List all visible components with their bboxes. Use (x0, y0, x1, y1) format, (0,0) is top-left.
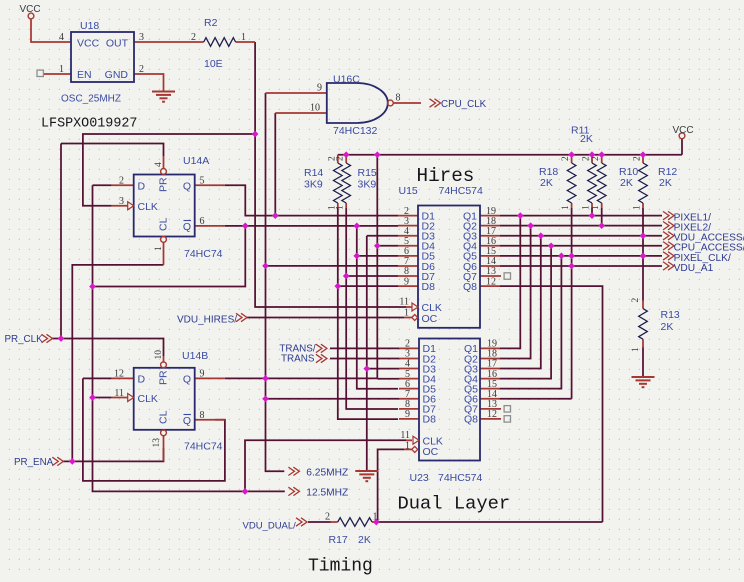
svg-text:2: 2 (139, 64, 144, 75)
resistor R11 body (588, 163, 597, 203)
svg-text:CL: CL (158, 217, 170, 231)
junction rail R18 (568, 151, 575, 158)
wire U14A PR rail from PR_CLK net (61, 144, 164, 157)
svg-text:1: 1 (591, 205, 601, 210)
svg-text:10: 10 (154, 350, 164, 360)
wire TRANS/ row to U23 D1 (330, 347, 399, 349)
pin U14A CL stem (163, 242, 165, 265)
svg-text:1: 1 (59, 64, 64, 75)
svg-text:1: 1 (582, 205, 592, 210)
junction V3 at D2 (353, 223, 360, 230)
svg-text:3: 3 (139, 32, 144, 43)
junction PR_ENA chevron (69, 458, 76, 465)
pin resistor top lead x=346.2 (345, 155, 347, 163)
svg-text:CLK: CLK (138, 201, 158, 213)
pin U23 Q2 (480, 357, 500, 359)
wire U23 Q5 riser (500, 256, 561, 389)
junction V5 at U15 D4 (374, 242, 381, 249)
pin U23 Q6 (480, 398, 500, 400)
wire PR_CLK row (52, 339, 164, 357)
svg-text:U14A: U14A (183, 155, 209, 167)
junction R15 at U15 D7 (343, 273, 350, 280)
net label arrow CPU_CLK (430, 99, 441, 107)
wire PR_CLK vertical to PR_CLK row (60, 144, 62, 339)
junction R18 column at VDU_A1 (568, 263, 575, 270)
svg-text:CPU_CLK: CPU_CLK (441, 99, 487, 110)
svg-text:Dual Layer: Dual Layer (398, 493, 511, 515)
net label arrow 12.5MHZ (288, 487, 299, 495)
svg-text:9: 9 (200, 369, 205, 380)
pin resistor bottom lead x=337.8 (337, 203, 339, 208)
pin U23 Q4 (480, 378, 500, 380)
wire VCC stem right (681, 139, 683, 155)
wire U14B Q row (225, 377, 378, 379)
pin U23 Q5 (480, 388, 500, 390)
svg-text:OSC_25MHZ: OSC_25MHZ (61, 94, 121, 105)
svg-text:LFSPXO019927: LFSPXO019927 (41, 117, 137, 132)
svg-text:R15: R15 (358, 167, 377, 179)
svg-text:Q8: Q8 (463, 281, 477, 293)
wire U14A Q to U15 D1 row (225, 185, 398, 215)
svg-text:2: 2 (336, 156, 346, 161)
svg-text:D8: D8 (422, 281, 436, 293)
nand U16C output bubble (388, 100, 394, 106)
svg-text:PR: PR (158, 177, 170, 192)
svg-text:4: 4 (59, 32, 64, 43)
svg-text:Q: Q (183, 415, 191, 427)
svg-text:PR_ENA: PR_ENA (14, 457, 54, 468)
svg-text:2K: 2K (659, 177, 672, 189)
junction rail V5 (374, 151, 381, 158)
svg-text:12: 12 (114, 369, 124, 380)
wire V5 vertical from VCC rail to U14B Q row (376, 155, 378, 379)
net label arrow TRANS/ (316, 344, 327, 352)
wire U23 CLK row from 12.5MHZ net (245, 440, 406, 491)
U15 CLK triangle (412, 303, 418, 311)
resistor R12 body (639, 163, 648, 203)
junction 6.25MHZ at U14B Q (262, 375, 269, 382)
junction rail R12 (640, 151, 647, 158)
svg-text:9: 9 (405, 409, 410, 420)
wire U14A D row (93, 184, 112, 186)
wire U15 Q5 row PIXEL_CLK/ (500, 255, 662, 257)
U14A CL bubble (161, 237, 167, 243)
wire R13 lower to ground (642, 348, 644, 378)
svg-text:Q: Q (183, 221, 191, 233)
register U15 body (418, 206, 480, 328)
svg-text:2K: 2K (540, 177, 553, 189)
wire U15 Q3 row VDU_ACCESS/ (500, 235, 662, 237)
pin U15 D8 (398, 285, 418, 287)
wire R14 column to U23 D8 (338, 208, 398, 419)
resistor R2 body (204, 38, 236, 47)
svg-text:U14B: U14B (182, 350, 208, 362)
wire U14A CL to PR_ENA net (72, 265, 163, 462)
junction Q1 riser at PIXEL1 (517, 212, 524, 219)
svg-text:U15: U15 (399, 185, 418, 197)
svg-text:1: 1 (154, 246, 164, 251)
wire U23 Q3 riser (500, 236, 541, 369)
pin U23 D2 (399, 357, 419, 359)
svg-text:74HC74: 74HC74 (184, 441, 223, 453)
junction R12 column at PIXEL_CLK (640, 253, 647, 260)
wire U15 D3 row (367, 235, 398, 237)
net label arrow CPU_ACCESS/ (663, 242, 674, 250)
pin resistor bottom lead x=643.0 (642, 203, 644, 208)
svg-text:1: 1 (404, 308, 409, 319)
pin U23 D1 (399, 347, 419, 349)
pin U23 CLK (406, 439, 412, 441)
svg-text:4: 4 (154, 162, 164, 167)
wire U16C pin9 vertical to 6.25MHZ stub (266, 93, 285, 471)
pin U15 D2 (398, 225, 418, 227)
pin U23 D4 (399, 378, 419, 380)
svg-text:EN: EN (77, 69, 92, 81)
svg-text:2: 2 (591, 156, 601, 161)
no-connect square U23 Q7 (504, 406, 510, 412)
svg-text:D8: D8 (423, 414, 437, 426)
pin U15 D1 (398, 215, 418, 217)
svg-text:OUT: OUT (106, 38, 129, 50)
pin U23 D8 (399, 418, 419, 420)
svg-text:2K: 2K (580, 133, 593, 145)
wire VDU_DUAL row (308, 521, 331, 523)
net label arrow PIXEL2/ (663, 221, 674, 229)
pin U23 D5 (399, 388, 419, 390)
svg-text:3K9: 3K9 (358, 179, 377, 191)
wire U15 D8 row (338, 285, 398, 287)
wire U15 Q1 row PIXEL1/ (500, 215, 662, 217)
wire R12-R13 column upper (642, 208, 644, 301)
svg-text:R13: R13 (661, 309, 680, 321)
junction rail R15 (343, 151, 350, 158)
wire VCC symbol stem to U18 pin 4 (31, 20, 71, 43)
svg-text:2: 2 (119, 176, 124, 187)
pin R2 lead right (236, 41, 256, 43)
pin resistor bottom lead x=571.6 (571, 203, 573, 208)
pin U23 Q3 (480, 368, 500, 370)
wire U23 Q2 riser (500, 226, 531, 359)
wire VDU_HIRES row to U15 OC (246, 317, 404, 319)
pin U23 D6 (399, 398, 419, 400)
resistor R15 body (342, 163, 351, 203)
ground symbol U23 OC (355, 471, 378, 481)
pin U14B Qbar (195, 419, 225, 421)
U23 OC bubble (412, 446, 418, 452)
svg-text:12: 12 (486, 276, 496, 287)
VCC power symbol right (679, 133, 685, 139)
junction PR_CLK chevron (58, 335, 65, 342)
svg-text:1: 1 (633, 205, 643, 210)
wire U15 D5 row (357, 255, 398, 257)
junction Q2 riser at PIXEL2 (527, 222, 534, 229)
junction R14 at U15 D8 (334, 283, 341, 290)
pin U15 Q6 (480, 265, 500, 267)
ground symbol R13 (632, 377, 655, 387)
svg-text:2: 2 (325, 512, 330, 523)
junction 6.25MHZ at U15 D6 (262, 263, 269, 270)
wire U14B CLK row (93, 397, 112, 399)
svg-text:VDU_DUAL/: VDU_DUAL/ (243, 521, 297, 532)
pin U23 Q8 stub (480, 418, 501, 420)
svg-text:10: 10 (310, 103, 320, 114)
svg-text:Timing: Timing (308, 557, 373, 577)
svg-text:3: 3 (119, 196, 124, 207)
junction 6.25MHZ at U23 D6 (262, 395, 269, 402)
net label arrow PIXEL1/ (663, 211, 674, 219)
U14B PR bubble (161, 362, 167, 368)
svg-text:10E: 10E (204, 58, 223, 70)
wire U23 Q1 riser (500, 216, 520, 349)
wire U23 Q4 riser (500, 246, 551, 379)
svg-text:VCC: VCC (673, 125, 694, 136)
pin resistor top lead x=643.0 (642, 155, 644, 163)
resistor R14 body (334, 163, 343, 203)
pin U23 D7 (399, 408, 419, 410)
pin U15 Q8 (480, 285, 500, 287)
net label arrow 6.25MHZ (288, 467, 299, 475)
pin U15 D7 (398, 275, 418, 277)
net label arrow VDU_A1 (663, 262, 674, 270)
pin R13 top lead (642, 301, 644, 309)
svg-text:74HC132: 74HC132 (333, 125, 378, 137)
svg-text:GND: GND (105, 69, 129, 81)
net label arrow VDU_DUAL/ (296, 518, 307, 526)
svg-text:U18: U18 (80, 20, 99, 32)
pin U15 Q4 (480, 245, 500, 247)
svg-text:OC: OC (423, 446, 439, 458)
svg-text:74HC74: 74HC74 (184, 248, 223, 260)
wire V4 vertical D3 to ground (366, 236, 368, 471)
no-connect square U15 Q7 (504, 273, 510, 279)
svg-text:1: 1 (561, 205, 571, 210)
svg-text:2K: 2K (620, 177, 633, 189)
U14B CLK triangle (128, 394, 134, 402)
pin U14A CLK (112, 205, 128, 207)
net label arrow PIXEL_CLK/ (663, 252, 674, 260)
svg-text:CLK: CLK (138, 393, 158, 405)
oscillator U18 body (71, 32, 134, 82)
pin U14B D (112, 377, 134, 379)
pin U14A Qbar (195, 225, 225, 227)
wire U15 Q4 row CPU_ACCESS/ (500, 245, 662, 247)
wire U23 D3 row (367, 368, 399, 370)
pin U23 D3 (399, 368, 419, 370)
pin resistor bottom lead x=346.2 (345, 203, 347, 208)
svg-text:U16C: U16C (333, 74, 360, 86)
pin U16C input 9 (266, 92, 327, 94)
junction V3 at U15 D5 (353, 253, 360, 260)
svg-text:2: 2 (191, 32, 196, 43)
no-connect square U23 Q8 (504, 416, 510, 422)
pin U15 D4 (398, 245, 418, 247)
wire U23 OC to VDU_DUAL net (378, 449, 404, 522)
svg-text:R14: R14 (304, 167, 323, 179)
pin U15 Q1 (480, 215, 500, 217)
svg-text:2: 2 (582, 156, 592, 161)
svg-text:U23: U23 (410, 472, 429, 484)
no-connect square U18 EN (37, 70, 43, 76)
svg-text:13: 13 (152, 438, 162, 448)
junction Q4 riser at CPU_ACCESS (548, 242, 555, 249)
pin U14B PR stem (163, 356, 165, 363)
svg-text:2K: 2K (358, 534, 371, 546)
wire 25MHZ branch row to U14A CLK (83, 134, 255, 206)
wire U15 D6 row (266, 265, 399, 267)
svg-text:Q: Q (183, 180, 191, 192)
wire U14A D feed vertical (12.5MHZ net) (93, 185, 285, 491)
pin U15 D5 (398, 255, 418, 257)
pin resistor top lead x=601.7 (601, 155, 603, 163)
svg-text:2K: 2K (661, 321, 674, 333)
wire R15 column to U23 D7 (346, 208, 398, 409)
junction R11 at PIXEL1 (589, 212, 596, 219)
pin R13 bottom lead (642, 339, 644, 347)
svg-text:9: 9 (404, 276, 409, 287)
svg-text:VDU_HIRES/: VDU_HIRES/ (177, 314, 237, 325)
svg-text:1: 1 (373, 512, 378, 523)
pin U16C output 8 (393, 102, 421, 104)
svg-text:VDU_A1: VDU_A1 (674, 263, 714, 274)
pin U15 OC (404, 317, 412, 319)
pin U15 D6 (398, 265, 418, 267)
svg-text:2: 2 (561, 156, 571, 161)
U15 OC bubble (412, 315, 418, 321)
wire R11 column lower (591, 208, 593, 216)
wire U23 D4 row (377, 378, 399, 380)
wire U23 Q6 row to R18 column (500, 398, 572, 400)
wire U15 D7 row (346, 275, 398, 277)
pin U23 Q7 stub (480, 408, 501, 410)
flip-flop U14A body (134, 175, 195, 237)
wire PR_ENA row (62, 448, 164, 461)
resistor R13 body (639, 309, 648, 340)
junction OC vertical at VDU_DUAL row (373, 519, 380, 526)
wire U15 Q8 row to VDU_DUAL net (500, 286, 603, 522)
wire U15 Q2 row PIXEL2/ (500, 225, 662, 227)
svg-text:1: 1 (336, 205, 346, 210)
pin U18 OUT to R2 (134, 41, 204, 43)
wire V3 vertical D2 to U23 D5 (357, 226, 398, 389)
resistor R18 body (567, 163, 576, 203)
pin U14B Q (195, 377, 225, 379)
svg-text:CL: CL (158, 410, 170, 424)
svg-text:VCC: VCC (20, 4, 41, 15)
svg-text:D: D (138, 180, 146, 192)
junction rail R11 (589, 151, 596, 158)
pin U15 Q7 stub (480, 275, 501, 277)
svg-text:PR_CLK: PR_CLK (5, 334, 44, 345)
svg-text:Q8: Q8 (464, 414, 478, 426)
pin U18 EN (43, 73, 71, 75)
pin U14A PR stem (163, 156, 165, 168)
pin R17 left lead (331, 521, 338, 523)
wire U15 Q6 row VDU_A1 (500, 265, 662, 267)
net label arrow PR_CLK (42, 334, 53, 342)
svg-text:D: D (138, 374, 146, 386)
net label arrow PR_ENA (52, 457, 63, 465)
svg-text:1: 1 (241, 32, 246, 43)
svg-text:OC: OC (422, 313, 438, 325)
svg-text:TRANS: TRANS (281, 354, 315, 365)
U14A PR bubble (161, 169, 167, 175)
svg-text:3K9: 3K9 (304, 179, 323, 191)
svg-text:74HC574: 74HC574 (439, 185, 484, 197)
pin U15 Q2 (480, 225, 500, 227)
pin U15 Q5 (480, 255, 500, 257)
wire U15 D4 row (377, 245, 398, 247)
junction 12.5MHZ at U23 CLK riser (242, 488, 249, 495)
nand gate U16C body (327, 83, 388, 123)
pin U18 GND to ground (134, 74, 164, 92)
svg-text:Q: Q (183, 374, 191, 386)
pin U15 D3 (398, 235, 418, 237)
pin resistor bottom lead x=601.7 (601, 203, 603, 208)
svg-text:1: 1 (405, 441, 410, 452)
resistor R10 body (597, 163, 606, 203)
pin U23 OC (404, 448, 412, 450)
net label arrow TRANS (316, 354, 327, 362)
svg-text:11: 11 (114, 388, 124, 399)
pin U15 CLK (406, 306, 412, 308)
svg-text:11: 11 (400, 430, 410, 441)
svg-text:8: 8 (200, 410, 205, 421)
junction U16C pin10 at D1 (272, 212, 279, 219)
wire TRANS row to U23 D2 (330, 358, 399, 360)
wire 25MHZ osc output vertical to U15 CLK (255, 42, 406, 307)
wire U14A Qbar to U15 D2 row (225, 225, 398, 227)
svg-text:11: 11 (399, 297, 409, 308)
svg-text:12.5MHZ: 12.5MHZ (306, 488, 348, 499)
wire U14B D row (83, 377, 112, 379)
U23 CLK triangle (413, 436, 419, 444)
net label arrow VDU_ACCESS/ (663, 232, 674, 240)
junction V4 at U23 D3 (363, 365, 370, 372)
junction 12.5MHZ at U14A D vert / D8 branch (89, 283, 96, 290)
register U23 body (419, 339, 480, 461)
pin resistor bottom lead x=592.0 (591, 203, 593, 208)
junction Q5 riser at PIXEL_CLK (558, 253, 565, 260)
wire U14A Qbar branch down-left to 12.5MHZ net (93, 226, 246, 287)
wire U16C pin10 vertical to U15 D1 (274, 113, 276, 216)
svg-text:6: 6 (200, 216, 205, 227)
wire U14B D loop row (83, 378, 225, 481)
svg-text:9: 9 (317, 83, 322, 94)
pin R17 right lead (372, 521, 376, 523)
net label arrow VDU_HIRES/ (236, 313, 247, 321)
junction R10 at PIXEL2 (598, 222, 605, 229)
svg-text:2: 2 (633, 156, 643, 161)
junction R12 column at VDU_ACCESS (640, 232, 647, 239)
svg-text:R17: R17 (329, 534, 348, 546)
svg-text:8: 8 (396, 93, 401, 104)
pin U14B CLK (112, 397, 128, 399)
wire R18 column vertical (571, 208, 573, 399)
svg-text:R2: R2 (204, 17, 218, 29)
pin U14A D (112, 184, 134, 186)
junction R18 column at PIXEL_CLK (568, 253, 575, 260)
pin U14A Q (195, 184, 225, 186)
svg-text:1: 1 (631, 347, 641, 352)
wire VCC rail (338, 154, 682, 156)
pin resistor top lead x=592.0 (591, 155, 593, 163)
svg-text:PR: PR (158, 370, 170, 385)
pin U14B CL stem (163, 435, 165, 461)
wire U23 D6 row (6.25MHZ net) (266, 398, 400, 400)
pin U23 Q1 (480, 347, 500, 349)
svg-text:5: 5 (200, 176, 205, 187)
svg-text:6.25MHZ: 6.25MHZ (306, 468, 348, 479)
